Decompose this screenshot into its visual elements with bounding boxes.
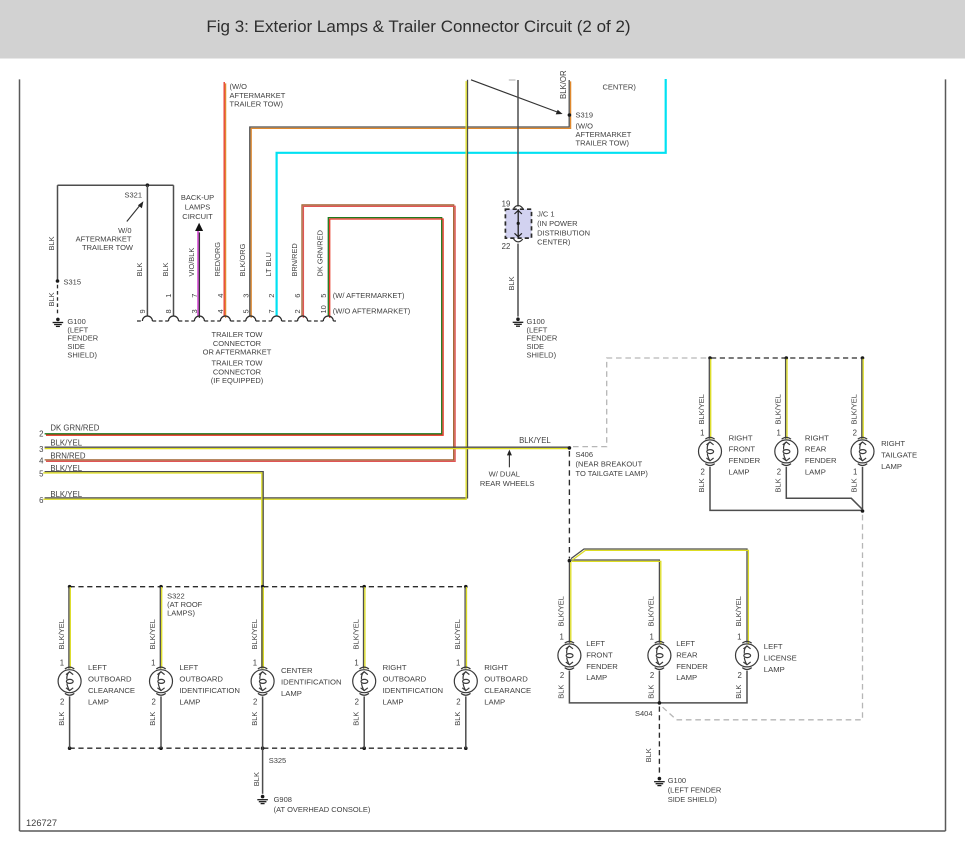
- svg-text:CLEARANCE: CLEARANCE: [484, 686, 531, 695]
- svg-text:6: 6: [293, 294, 302, 298]
- splice dots on roof lamp bus: [68, 585, 72, 589]
- ground G908: [257, 795, 268, 804]
- trailer tow connector dashed line: [137, 320, 336, 322]
- svg-text:LEFT: LEFT: [764, 642, 783, 651]
- wire BRN/RED loop: connector pin 2 up, right, down to stub 4: [45, 205, 454, 460]
- svg-text:S325: S325: [269, 756, 287, 765]
- svg-text:BLK: BLK: [161, 262, 170, 276]
- svg-text:RED/ORG: RED/ORG: [213, 242, 222, 277]
- small gray tick at top of BLK wire: [509, 79, 516, 81]
- svg-text:SHIELD): SHIELD): [527, 351, 557, 360]
- svg-text:BLK: BLK: [351, 712, 360, 726]
- wire BLK lamp to bottom bus: [262, 696, 264, 748]
- svg-text:126727: 126727: [26, 818, 57, 828]
- svg-text:1: 1: [737, 633, 741, 642]
- svg-text:6: 6: [39, 496, 43, 505]
- svg-text:BLK: BLK: [252, 772, 261, 786]
- svg-text:FENDER: FENDER: [805, 456, 837, 465]
- wire BLK/YEL to LEFT OUTBOARD IDENTIFICATION LAMP: [159, 587, 161, 669]
- dashed black from S406 down to left lamp group: [568, 451, 570, 559]
- lamp CENTER IDENTIFICATION LAMP: [251, 667, 274, 695]
- wire BLK lamp to bottom bus: [363, 696, 365, 748]
- wire BLK dashed S404 to G100: [658, 707, 660, 774]
- svg-text:BLK/YEL: BLK/YEL: [148, 619, 157, 649]
- lamp RIGHT FRONT FENDER LAMP: [699, 437, 722, 465]
- svg-text:4: 4: [39, 456, 44, 465]
- svg-text:2: 2: [355, 698, 359, 707]
- svg-text:5: 5: [319, 294, 328, 298]
- svg-text:8: 8: [164, 309, 173, 313]
- lamp LEFT LICENSE LAMP: [736, 641, 759, 669]
- svg-text:LAMP: LAMP: [179, 697, 200, 706]
- wire BLK/YEL to left license lamp: [571, 549, 747, 643]
- svg-text:S404: S404: [635, 709, 653, 718]
- svg-text:CLEARANCE: CLEARANCE: [88, 686, 135, 695]
- wire BLK/YEL to RIGHT OUTBOARD IDENTIFICATION LAMP: [363, 587, 365, 669]
- svg-text:LEFT: LEFT: [88, 663, 107, 672]
- svg-text:BLK: BLK: [135, 262, 144, 276]
- lamp RIGHT TAILGATE LAMP: [851, 437, 874, 465]
- svg-text:1: 1: [354, 658, 358, 667]
- svg-text:2: 2: [39, 429, 43, 438]
- svg-text:OUTBOARD: OUTBOARD: [383, 675, 427, 684]
- svg-text:SIDE SHIELD): SIDE SHIELD): [668, 795, 718, 804]
- feed dots for right lamps: [708, 356, 712, 360]
- svg-text:TO TAILGATE LAMP): TO TAILGATE LAMP): [576, 469, 649, 478]
- svg-text:RIGHT: RIGHT: [805, 433, 829, 442]
- wire BLK/YEL circuit 5: stub 5 right then down to roof lamps box: [45, 472, 264, 667]
- wire BLK/YEL feed to RIGHT REAR FENDER LAMP: [785, 359, 787, 439]
- splice S406 dot: [568, 446, 572, 450]
- svg-text:7: 7: [267, 309, 276, 313]
- svg-text:OUTBOARD: OUTBOARD: [88, 675, 132, 684]
- svg-text:S321: S321: [124, 190, 142, 199]
- lamp RIGHT REAR FENDER LAMP: [775, 437, 798, 465]
- wire BLK/YEL to LEFT OUTBOARD CLEARANCE LAMP: [68, 587, 70, 669]
- svg-text:DISTRIBUTION: DISTRIBUTION: [537, 228, 590, 237]
- svg-text:(AT OVERHEAD CONSOLE): (AT OVERHEAD CONSOLE): [274, 805, 371, 814]
- lamp RIGHT OUTBOARD IDENTIFICATION LAMP: [353, 667, 376, 695]
- svg-text:FRONT: FRONT: [729, 445, 756, 454]
- svg-text:IDENTIFICATION: IDENTIFICATION: [281, 677, 342, 686]
- back-up lamps circuit arrow: [195, 223, 203, 231]
- svg-text:BLK: BLK: [47, 292, 56, 306]
- trailer tow connector bumps: [142, 316, 333, 321]
- wire BLK/YEL to left front fender lamp: [568, 562, 570, 643]
- svg-text:(IN POWER: (IN POWER: [537, 219, 578, 228]
- wire BLK/ORG: connector pin 5 up, right, up to top with splice S319: [250, 80, 569, 317]
- svg-text:2: 2: [151, 698, 155, 707]
- svg-text:LEFT: LEFT: [586, 639, 605, 648]
- svg-text:3: 3: [190, 309, 199, 313]
- svg-text:3: 3: [39, 445, 43, 454]
- svg-text:2: 2: [253, 698, 257, 707]
- svg-text:OUTBOARD: OUTBOARD: [484, 675, 528, 684]
- svg-text:2: 2: [853, 429, 857, 438]
- svg-text:1: 1: [164, 294, 173, 298]
- svg-text:1: 1: [456, 658, 460, 667]
- svg-text:VIO/BLK: VIO/BLK: [187, 248, 196, 277]
- svg-text:G100: G100: [668, 776, 686, 785]
- splice S321 dot: [146, 183, 150, 187]
- svg-text:1: 1: [60, 658, 64, 667]
- svg-text:CONNECTOR: CONNECTOR: [213, 339, 262, 348]
- wire BLK S321 loop horizontal: [58, 184, 174, 186]
- svg-text:S319: S319: [576, 111, 594, 120]
- wire RED/ORG vertical (to top, pin 4): [223, 82, 225, 317]
- svg-text:BLK: BLK: [453, 712, 462, 726]
- svg-text:1: 1: [253, 658, 257, 667]
- svg-text:BLK: BLK: [557, 685, 566, 699]
- svg-text:BLK: BLK: [697, 478, 706, 492]
- wire BLK/YEL feed to RIGHT FRONT FENDER LAMP: [708, 359, 710, 439]
- wire BLK left rear fender lamp down: [658, 671, 660, 703]
- wire BLK right rear fender lamp to junction: [786, 467, 862, 510]
- svg-text:2: 2: [456, 698, 460, 707]
- svg-text:BRN/RED: BRN/RED: [290, 243, 299, 276]
- svg-text:J/C 1: J/C 1: [537, 210, 555, 219]
- svg-text:TRAILER TOW: TRAILER TOW: [212, 330, 264, 339]
- svg-text:2: 2: [293, 309, 302, 313]
- diagram right border: [945, 79, 947, 831]
- svg-text:BRN/RED: BRN/RED: [50, 452, 85, 461]
- svg-text:RIGHT: RIGHT: [881, 439, 905, 448]
- svg-text:BLK: BLK: [507, 276, 516, 290]
- svg-text:2: 2: [650, 671, 654, 680]
- svg-text:G908: G908: [274, 795, 292, 804]
- ground G100 power distribution: [513, 317, 524, 326]
- svg-text:LAMP: LAMP: [676, 673, 697, 682]
- svg-text:2: 2: [60, 698, 64, 707]
- svg-text:CONNECTOR: CONNECTOR: [213, 367, 262, 376]
- svg-text:BLK: BLK: [47, 236, 56, 250]
- svg-text:LAMP: LAMP: [281, 689, 302, 698]
- svg-text:LT BLU: LT BLU: [264, 252, 273, 276]
- svg-text:LAMP: LAMP: [88, 697, 109, 706]
- svg-text:BLK/OR: BLK/OR: [559, 70, 568, 99]
- svg-text:OUTBOARD: OUTBOARD: [179, 675, 223, 684]
- svg-text:10: 10: [319, 305, 328, 313]
- svg-text:REAR WHEELS: REAR WHEELS: [480, 479, 535, 488]
- arrow to splice S319: [471, 80, 559, 113]
- wire BLK S325 to G908: [262, 748, 264, 794]
- svg-text:LAMP: LAMP: [805, 468, 826, 477]
- wire BLK right tailgate lamp down: [862, 467, 864, 509]
- header bar: [0, 0, 965, 59]
- svg-text:LAMP: LAMP: [764, 665, 785, 674]
- roof lamps dashed box bottom line: [70, 747, 466, 749]
- splice S315 dot: [56, 279, 60, 283]
- svg-text:FRONT: FRONT: [586, 650, 613, 659]
- lamp LEFT REAR FENDER LAMP: [648, 641, 671, 669]
- lamp LEFT OUTBOARD IDENTIFICATION LAMP: [150, 667, 173, 695]
- ground G100 left fender: [53, 318, 64, 327]
- svg-text:(W/ AFTERMARKET): (W/ AFTERMARKET): [333, 291, 405, 300]
- svg-text:FENDER: FENDER: [729, 456, 761, 465]
- svg-text:19: 19: [502, 199, 511, 208]
- svg-text:BLK: BLK: [644, 748, 653, 762]
- svg-text:9: 9: [138, 309, 147, 313]
- svg-text:BLK: BLK: [148, 712, 157, 726]
- svg-text:BLK/YEL: BLK/YEL: [453, 619, 462, 649]
- wire BLK left lamps ground bus: [569, 671, 747, 703]
- svg-text:(W/O AFTERMARKET): (W/O AFTERMARKET): [333, 306, 411, 315]
- junction dot left lamp group: [568, 559, 572, 563]
- svg-text:BLK/YEL: BLK/YEL: [557, 596, 566, 626]
- svg-text:LEFT: LEFT: [676, 639, 695, 648]
- svg-text:LAMP: LAMP: [729, 468, 750, 477]
- diagram bottom border: [20, 830, 946, 832]
- lamp RIGHT OUTBOARD CLEARANCE LAMP: [454, 667, 477, 695]
- svg-text:2: 2: [560, 671, 564, 680]
- svg-text:(IF EQUIPPED): (IF EQUIPPED): [211, 376, 264, 385]
- svg-text:BLK: BLK: [250, 712, 259, 726]
- wire BLK lamp to bottom bus: [160, 696, 162, 748]
- junction dot right lamps ground bus: [861, 509, 865, 513]
- svg-text:CENTER): CENTER): [537, 238, 571, 247]
- svg-text:2: 2: [700, 467, 704, 476]
- svg-text:BLK/YEL: BLK/YEL: [774, 394, 783, 424]
- dashed gray jumper S406 up to right lamps feed: [573, 358, 709, 447]
- svg-text:RIGHT: RIGHT: [383, 663, 407, 672]
- svg-text:LAMP: LAMP: [586, 673, 607, 682]
- svg-text:5: 5: [241, 309, 250, 313]
- wire BLK lamp to bottom bus: [465, 696, 467, 748]
- svg-text:1: 1: [853, 467, 857, 476]
- wire BLK J/C 1 to ground: [517, 244, 519, 317]
- svg-text:1: 1: [700, 429, 704, 438]
- svg-text:TRAILER TOW): TRAILER TOW): [576, 138, 630, 147]
- svg-text:LICENSE: LICENSE: [764, 654, 797, 663]
- svg-text:BLK: BLK: [647, 685, 656, 699]
- svg-text:7: 7: [190, 294, 199, 298]
- wire VIO/BLK to connector pin 3: [197, 231, 199, 317]
- junction connector J/C 1 block: [505, 209, 531, 238]
- svg-text:S315: S315: [64, 277, 82, 286]
- svg-text:LAMP: LAMP: [484, 697, 505, 706]
- svg-text:2: 2: [267, 294, 276, 298]
- svg-text:BLK/YEL: BLK/YEL: [734, 596, 743, 626]
- roof lamps dashed box top line: [70, 586, 466, 588]
- svg-text:22: 22: [502, 242, 511, 251]
- splice S404 dot: [658, 701, 662, 705]
- svg-text:(LEFT FENDER: (LEFT FENDER: [668, 786, 722, 795]
- dashed black right lamps feed line: [711, 357, 863, 359]
- svg-text:RIGHT: RIGHT: [729, 433, 753, 442]
- svg-text:LAMPS): LAMPS): [167, 609, 195, 618]
- svg-text:BLK/YEL: BLK/YEL: [50, 438, 82, 447]
- svg-text:LEFT: LEFT: [179, 663, 198, 672]
- wire BLK/YEL to RIGHT OUTBOARD CLEARANCE LAMP: [464, 587, 466, 669]
- svg-text:LAMPS: LAMPS: [185, 203, 210, 212]
- w/ dual rear wheels arrow: [508, 454, 510, 467]
- svg-text:TRAILER TOW: TRAILER TOW: [82, 243, 134, 252]
- svg-text:BLK/YEL: BLK/YEL: [250, 619, 259, 649]
- svg-text:BLK: BLK: [774, 478, 783, 492]
- svg-text:SHIELD): SHIELD): [67, 351, 97, 360]
- wire BLK/YEL circuit 6: from top down then left to stub 6: [45, 80, 468, 498]
- svg-text:OR AFTERMARKET: OR AFTERMARKET: [203, 348, 272, 357]
- svg-text:BLK: BLK: [734, 685, 743, 699]
- svg-text:LAMP: LAMP: [881, 462, 902, 471]
- wire BLK lamp to bottom bus: [69, 696, 71, 748]
- svg-text:IDENTIFICATION: IDENTIFICATION: [383, 686, 444, 695]
- svg-text:BLK/YEL: BLK/YEL: [647, 596, 656, 626]
- svg-text:BLK/YEL: BLK/YEL: [351, 619, 360, 649]
- svg-text:BLK/YEL: BLK/YEL: [519, 436, 551, 445]
- svg-text:FENDER: FENDER: [586, 662, 618, 671]
- dashed gray from right lamps junction to S404: [662, 515, 863, 720]
- wire BLK right front fender lamp to junction: [710, 467, 862, 511]
- svg-text:4: 4: [216, 294, 225, 298]
- svg-text:LAMP: LAMP: [383, 697, 404, 706]
- svg-text:CENTER): CENTER): [603, 83, 637, 92]
- wire BLK S321 to connector pin 9: [146, 185, 148, 316]
- wire BLK dashed S315 to G100: [57, 285, 59, 315]
- wire BLK/YEL to left rear fender lamp: [570, 560, 659, 643]
- lamp LEFT OUTBOARD CLEARANCE LAMP: [58, 667, 81, 695]
- svg-text:2: 2: [737, 671, 741, 680]
- diagram left border: [19, 79, 21, 831]
- svg-text:BLK/YEL: BLK/YEL: [50, 490, 82, 499]
- wire BLK to J/C 1 (from top): [517, 80, 519, 207]
- wire LT BLU: connector pin 7 up, right, up to top: [277, 79, 666, 317]
- svg-text:REAR: REAR: [805, 445, 827, 454]
- svg-text:1: 1: [776, 429, 780, 438]
- wire BLK/YEL circuit 3: stub 3 right to splice S406: [45, 446, 569, 448]
- wire BLK S321 to connector pin 8: [173, 185, 175, 316]
- wire BLK/YEL feed to RIGHT TAILGATE LAMP: [861, 359, 863, 439]
- svg-text:TAILGATE: TAILGATE: [881, 450, 917, 459]
- svg-text:DK GRN/RED: DK GRN/RED: [316, 230, 325, 276]
- svg-text:BLK/YEL: BLK/YEL: [697, 394, 706, 424]
- svg-text:W/ DUAL: W/ DUAL: [489, 470, 520, 479]
- svg-text:BLK: BLK: [57, 712, 66, 726]
- svg-text:DK GRN/RED: DK GRN/RED: [50, 424, 99, 433]
- svg-text:1: 1: [650, 633, 654, 642]
- ground G100 left fender side shield (bottom): [654, 777, 665, 786]
- svg-text:FENDER: FENDER: [676, 662, 708, 671]
- svg-text:CENTER: CENTER: [281, 666, 313, 675]
- svg-text:REAR: REAR: [676, 650, 698, 659]
- svg-text:5: 5: [39, 470, 44, 479]
- splice S319 dot: [568, 113, 572, 117]
- svg-text:BLK/YEL: BLK/YEL: [57, 619, 66, 649]
- svg-text:4: 4: [216, 309, 225, 313]
- wire DK GRN/RED loop: connector pin 10 up, right, down to stub 2: [45, 218, 442, 434]
- svg-text:BLK/ORG: BLK/ORG: [238, 243, 247, 276]
- svg-text:BACK-UP: BACK-UP: [181, 193, 214, 202]
- svg-text:TRAILER TOW: TRAILER TOW: [212, 359, 264, 368]
- svg-text:TRAILER TOW): TRAILER TOW): [230, 99, 284, 108]
- svg-text:IDENTIFICATION: IDENTIFICATION: [179, 686, 240, 695]
- svg-text:BLK: BLK: [850, 478, 859, 492]
- svg-text:Fig 3: Exterior Lamps & Traile: Fig 3: Exterior Lamps & Trailer Connecto…: [206, 17, 630, 36]
- lamp LEFT FRONT FENDER LAMP: [558, 641, 581, 669]
- svg-text:2: 2: [777, 467, 781, 476]
- wire BLK left branch down to S315: [57, 185, 59, 281]
- svg-text:RIGHT: RIGHT: [484, 663, 508, 672]
- wire BLK/YEL to CENTER IDENTIFICATION LAMP: [261, 587, 263, 669]
- svg-text:BLK/YEL: BLK/YEL: [850, 394, 859, 424]
- svg-text:CIRCUIT: CIRCUIT: [182, 212, 213, 221]
- svg-text:S406: S406: [576, 450, 594, 459]
- svg-text:(NEAR BREAKOUT: (NEAR BREAKOUT: [576, 460, 643, 469]
- svg-text:1: 1: [560, 633, 564, 642]
- svg-text:BLK/YEL: BLK/YEL: [50, 464, 82, 473]
- svg-text:3: 3: [241, 294, 250, 298]
- svg-text:1: 1: [151, 658, 155, 667]
